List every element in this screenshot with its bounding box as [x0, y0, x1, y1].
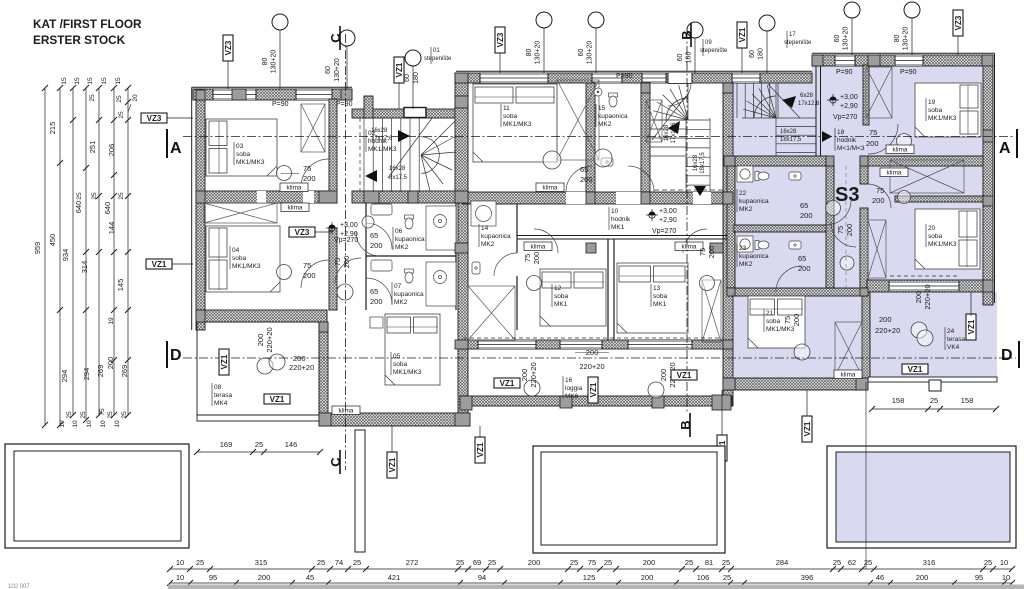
- svg-text:65: 65: [798, 254, 806, 263]
- window 19 a: [835, 55, 855, 66]
- svg-text:+3,00: +3,00: [840, 94, 858, 101]
- dashed line stairwell 01: [359, 118, 361, 192]
- window stair 09 a: [642, 73, 666, 83]
- wall pillar: [812, 55, 823, 66]
- section flag B top: [679, 23, 694, 47]
- svg-text:S3: S3: [835, 184, 859, 206]
- sink bath 15: [601, 158, 613, 166]
- svg-text:62: 62: [848, 558, 856, 567]
- door swing bath 15: [628, 166, 654, 192]
- bed room 20: [915, 209, 980, 269]
- bed room 21: [748, 296, 805, 348]
- window 19 b: [895, 55, 923, 66]
- svg-text:220+20: 220+20: [923, 284, 932, 309]
- svg-text:80: 80: [262, 58, 269, 66]
- top wall right block: [812, 55, 993, 66]
- svg-text:200: 200: [293, 354, 306, 363]
- svg-text:25: 25: [118, 192, 125, 200]
- terrace 08 boundary: [197, 322, 319, 415]
- svg-text:15: 15: [87, 77, 94, 85]
- klima room 12: [524, 242, 552, 251]
- bottom grey bar: [168, 585, 1024, 589]
- svg-text:200: 200: [792, 314, 801, 327]
- svg-text:VZ1: VZ1: [395, 62, 404, 77]
- svg-text:315: 315: [255, 558, 268, 567]
- flag VZ1 top-a: [394, 57, 404, 83]
- svg-text:180: 180: [413, 72, 420, 84]
- svg-text:294: 294: [60, 370, 69, 383]
- wall pillar: [982, 55, 993, 66]
- toilet bath 15: [609, 93, 618, 107]
- wardrobe room 19 entry: [866, 67, 892, 118]
- wall pillar: [455, 413, 470, 426]
- svg-text:D: D: [1001, 347, 1013, 364]
- wall corridor 18 / room 19: [863, 65, 869, 125]
- svg-text:220+20: 220+20: [579, 362, 604, 371]
- label terrace 24: [944, 327, 946, 350]
- svg-text:81: 81: [705, 558, 713, 567]
- ref point grid 80/130+20 a: [272, 14, 288, 30]
- label room 03: [233, 142, 235, 165]
- svg-text:+2,90: +2,90: [659, 217, 677, 224]
- ref point grid g: [904, 2, 920, 18]
- door circle terrace 08 a: [257, 358, 273, 374]
- outer skin line top-left wall: [192, 86, 352, 88]
- window stair 17: [732, 73, 760, 83]
- section flag C bottom: [328, 450, 343, 474]
- staircase 09 treads: [650, 84, 710, 192]
- duct stairwell 09: [646, 100, 662, 142]
- svg-text:125: 125: [583, 573, 596, 582]
- svg-text:640: 640: [103, 202, 112, 215]
- label bath 14: [478, 224, 480, 247]
- door swing room 04: [301, 260, 329, 288]
- svg-text:158: 158: [961, 396, 974, 405]
- svg-text:269: 269: [120, 365, 129, 378]
- wall pillar: [196, 90, 205, 100]
- svg-text:25: 25: [80, 411, 87, 419]
- svg-text:25: 25: [118, 111, 125, 119]
- bed room 04: [206, 226, 280, 292]
- svg-text:17x12,6: 17x12,6: [798, 101, 820, 107]
- wall room 20 / terrace 24: [867, 280, 983, 292]
- wall pillar: [724, 156, 735, 166]
- svg-text:200: 200: [303, 174, 316, 183]
- wardrobe room 21: [835, 322, 862, 376]
- svg-text:25: 25: [723, 573, 731, 582]
- wardrobe below bath 14: [468, 286, 515, 340]
- bed room 11: [473, 84, 557, 162]
- level mark hall 10: [646, 209, 658, 221]
- left outer wall: [196, 89, 205, 330]
- svg-text:180: 180: [686, 52, 693, 64]
- svg-text:959: 959: [33, 242, 42, 255]
- svg-text:25: 25: [722, 558, 730, 567]
- wall rooms 22/23: [734, 225, 826, 232]
- sink bath 06: [371, 204, 392, 215]
- svg-text:VZ3: VZ3: [147, 114, 162, 123]
- section letter A right: [999, 129, 1017, 158]
- wall pillar: [319, 322, 328, 332]
- flag VZ1 below c: [717, 435, 727, 461]
- toilet bath 22: [755, 172, 769, 181]
- svg-text:klima: klima: [893, 147, 908, 154]
- label bath 07: [391, 282, 393, 305]
- section letter A left: [167, 129, 182, 158]
- klima room 21: [834, 370, 862, 379]
- wall pillar: [710, 243, 723, 253]
- svg-text:VZ3: VZ3: [954, 15, 963, 30]
- flag VZ3 in plan: [289, 227, 315, 237]
- svg-text:25: 25: [76, 192, 83, 200]
- svg-text:74: 74: [335, 558, 343, 567]
- label bath 23: [736, 244, 738, 267]
- wall pillar: [641, 192, 650, 204]
- bottom dimension row 2: [170, 582, 1012, 584]
- wall pillar: [856, 378, 868, 390]
- loggia bottom parapet: [460, 396, 732, 406]
- S3 corridor left wall: [826, 166, 834, 292]
- room 21 floor: [725, 292, 868, 380]
- svg-text:25: 25: [685, 558, 693, 567]
- pier wall below building at C: [355, 430, 365, 552]
- wall stairwell 01 right / block divider: [455, 73, 468, 203]
- svg-text:16x28: 16x28: [664, 124, 670, 141]
- wall pillar: [586, 192, 595, 204]
- svg-text:18x17,5: 18x17,5: [780, 137, 802, 143]
- bed room 03: [206, 119, 277, 176]
- klima room 19: [886, 145, 914, 154]
- right outer wall: [983, 55, 993, 305]
- flag VZ1 right rot: [966, 314, 976, 340]
- svg-text:stepenište: stepenište: [700, 48, 728, 54]
- left dimension chains: [45, 88, 128, 425]
- svg-text:25: 25: [604, 558, 612, 567]
- window room 15: [592, 73, 622, 83]
- section letter D left: [167, 341, 182, 368]
- thin wall stairs 17 / corridor 18: [816, 65, 821, 156]
- svg-text:25: 25: [353, 558, 361, 567]
- door swing room 12: [534, 229, 558, 253]
- staircase 17 treads (S3): [737, 83, 816, 156]
- window room 12b: [560, 340, 602, 349]
- entry door threshold: [404, 108, 426, 118]
- ref point grid d: [687, 22, 703, 38]
- label room 13: [650, 284, 652, 307]
- door circle room 05 entry: [337, 284, 353, 300]
- outer skin line left wall: [191, 87, 193, 330]
- door swing room 21: [776, 266, 802, 292]
- svg-text:25: 25: [116, 95, 123, 103]
- svg-text:130+20: 130+20: [587, 41, 594, 65]
- svg-text:19: 19: [108, 317, 115, 325]
- flag VZ3 top-mid: [495, 27, 505, 53]
- svg-text:130+20: 130+20: [334, 58, 341, 82]
- svg-text:200: 200: [659, 369, 668, 382]
- wall pillar: [455, 191, 468, 203]
- svg-text:klima: klima: [339, 408, 354, 415]
- svg-text:94: 94: [478, 573, 486, 582]
- flag VZ1 top-b: [737, 22, 747, 48]
- wardrobe band rooms 19/20: [890, 160, 964, 193]
- door swing bath 06: [356, 232, 380, 256]
- klima room 05: [332, 406, 360, 415]
- door swing bath 22: [826, 200, 851, 225]
- loggia post mid-right: [652, 396, 664, 408]
- staircase 17 arrow: [782, 96, 796, 108]
- svg-text:09: 09: [705, 40, 712, 46]
- toilet bath 23: [755, 241, 769, 250]
- wall pillar: [723, 378, 735, 390]
- door swing bath 07: [366, 278, 392, 304]
- flag VZ1 terrace 08: [264, 394, 290, 404]
- svg-text:18x17,5: 18x17,5: [700, 152, 706, 174]
- partition walls baths 06/07: [366, 199, 614, 340]
- toilet bath 07: [405, 269, 414, 283]
- door swing room 05 entry: [335, 258, 361, 284]
- top wall centre block: [458, 73, 812, 83]
- section letter D right: [1001, 341, 1019, 368]
- dashed open edge stair 09 landing: [654, 189, 723, 191]
- door circle room 11: [543, 151, 561, 169]
- window room 11: [480, 73, 548, 83]
- svg-text:VZ3: VZ3: [224, 40, 233, 55]
- svg-text:200: 200: [872, 196, 885, 205]
- svg-text:25: 25: [930, 396, 938, 405]
- svg-text:25: 25: [91, 192, 98, 200]
- stairwell 09 / S3 wall: [723, 83, 733, 203]
- svg-text:16x28: 16x28: [780, 129, 797, 135]
- staircase 01 direction arrows: [398, 130, 410, 142]
- wall rooms 22-23 / room 21: [727, 288, 868, 296]
- svg-text:25: 25: [570, 558, 578, 567]
- svg-text:25: 25: [89, 94, 96, 102]
- S3 bath left wall: [727, 160, 735, 292]
- flag VZ1 loggia b: [671, 370, 697, 380]
- wall room 20 top: [895, 196, 983, 202]
- svg-text:Vp=270: Vp=270: [652, 228, 676, 235]
- S3 corridor right wall upper: [860, 166, 868, 184]
- window room 03 b: [296, 89, 332, 100]
- svg-text:200: 200: [370, 241, 383, 250]
- entry door top wall: [668, 73, 692, 83]
- svg-text:P=90: P=90: [272, 101, 289, 108]
- bottom right terrace floor: [836, 452, 1010, 542]
- svg-text:200: 200: [800, 211, 813, 220]
- bed room 12: [540, 269, 606, 326]
- svg-text:130+20: 130+20: [903, 27, 910, 51]
- svg-text:8x17,5: 8x17,5: [389, 175, 408, 181]
- svg-text:10: 10: [176, 573, 184, 582]
- bed room 05: [385, 314, 440, 385]
- flag VZ3 top-right: [953, 10, 963, 36]
- wall room 21 / terrace 24: [862, 292, 870, 380]
- terrace door room 20: [889, 281, 959, 291]
- svg-text:P=90: P=90: [836, 69, 853, 76]
- top wall left block: [193, 89, 352, 100]
- svg-text:75: 75: [869, 128, 877, 137]
- window wall rooms 12-13 / loggia: [460, 340, 732, 349]
- door circle loggia b: [648, 382, 664, 398]
- wall pillar: [455, 243, 468, 253]
- svg-text:200: 200: [580, 175, 593, 184]
- svg-text:klima: klima: [682, 244, 697, 251]
- extension line x866: [865, 382, 867, 569]
- svg-text:VZ1: VZ1: [967, 319, 976, 334]
- door swing room 03: [301, 159, 329, 187]
- svg-text:75: 75: [303, 261, 311, 270]
- svg-text:220+20: 220+20: [875, 326, 900, 335]
- svg-text:stepenište: stepenište: [784, 40, 812, 46]
- svg-text:16x28: 16x28: [693, 154, 699, 171]
- door swing bath 14: [494, 253, 517, 276]
- sink bath 23: [789, 241, 801, 249]
- svg-text:60: 60: [325, 66, 332, 74]
- toilet bath 06: [405, 215, 414, 229]
- klima room 03: [280, 183, 308, 192]
- window room 03 a: [213, 89, 256, 100]
- door swing bath 06: [366, 223, 392, 249]
- svg-text:klima: klima: [887, 170, 902, 177]
- svg-text:KAT /FIRST FLOOR: KAT /FIRST FLOOR: [33, 17, 142, 31]
- ref point grid b: [536, 12, 552, 28]
- wall pillar: [860, 156, 868, 166]
- shower bath 22: [737, 166, 753, 182]
- svg-text:VZ3: VZ3: [295, 228, 310, 237]
- wall room 05 / centre block left: [458, 203, 468, 426]
- window room 12: [478, 340, 536, 349]
- wardrobe room 13: [702, 280, 721, 342]
- svg-text:450: 450: [48, 234, 57, 247]
- apartment S3 highlighted floor area: [733, 65, 983, 156]
- flag VZ3 top-left: [223, 35, 233, 61]
- level mark hall left: [326, 222, 338, 234]
- wall pillar: [408, 191, 418, 203]
- svg-text:17x11,6: 17x11,6: [671, 122, 677, 144]
- svg-text:P=90: P=90: [336, 101, 353, 108]
- svg-text:VZ1: VZ1: [220, 354, 229, 369]
- svg-text:60: 60: [834, 35, 841, 43]
- svg-text:60: 60: [749, 50, 756, 58]
- label room 05: [390, 352, 392, 375]
- ref point grid c: [588, 12, 604, 28]
- svg-text:VZ1: VZ1: [270, 395, 285, 404]
- wall pillar: [983, 196, 993, 206]
- door circle terrace 08 b: [269, 354, 285, 370]
- door swing corridor S3 end: [831, 222, 856, 247]
- svg-text:60: 60: [677, 54, 684, 62]
- wall pillar: [232, 89, 246, 100]
- section line C vertical: [345, 34, 347, 470]
- svg-text:klima: klima: [841, 372, 856, 379]
- section line B vertical: [686, 30, 688, 414]
- wall pillar: [455, 73, 468, 83]
- door circle room 21: [794, 344, 810, 360]
- door circle terrace 24 a: [911, 322, 927, 338]
- svg-text:P=90: P=90: [616, 73, 633, 80]
- svg-text:10: 10: [1000, 558, 1008, 567]
- svg-text:60: 60: [578, 49, 585, 57]
- shower bath 06: [426, 206, 456, 250]
- wall stairwell 01 bottom: [352, 191, 463, 203]
- ref point grid e: [759, 15, 775, 31]
- svg-text:+2,90: +2,90: [840, 103, 858, 110]
- svg-text:95: 95: [209, 573, 217, 582]
- svg-text:75: 75: [783, 316, 792, 324]
- bottom dimension row 1: [170, 568, 1012, 570]
- svg-text:316: 316: [923, 558, 936, 567]
- label room 04: [229, 246, 231, 269]
- wall pillar: [196, 191, 205, 203]
- door circle room 04: [277, 265, 292, 280]
- window room 13: [628, 340, 692, 349]
- svg-text:klima: klima: [543, 185, 558, 192]
- svg-text:75: 75: [876, 186, 884, 195]
- wall pillar: [641, 83, 650, 93]
- svg-text:25: 25: [255, 440, 263, 449]
- svg-text:VZ1: VZ1: [500, 379, 515, 388]
- svg-text:180: 180: [758, 48, 765, 60]
- door circle bath 06: [362, 216, 374, 228]
- svg-text:75: 75: [303, 164, 311, 173]
- door circle room 03: [277, 166, 292, 181]
- label bath 15: [595, 104, 597, 127]
- svg-text:25: 25: [196, 558, 204, 567]
- svg-text:200: 200: [879, 315, 892, 324]
- svg-text:200: 200: [106, 357, 115, 370]
- S3 corridor right wall lower: [860, 208, 868, 292]
- label room 21: [763, 309, 765, 332]
- label bath 06: [392, 227, 394, 250]
- svg-text:130+20: 130+20: [843, 27, 850, 51]
- terrace 24 bottom edge: [868, 377, 997, 382]
- svg-text:251: 251: [88, 141, 97, 154]
- svg-text:200: 200: [370, 297, 383, 306]
- wall pillar: [723, 340, 733, 349]
- svg-text:VZ1: VZ1: [152, 260, 167, 269]
- section flag B bottom: [678, 413, 693, 437]
- svg-text:D: D: [170, 347, 182, 364]
- label room 11: [500, 104, 502, 127]
- svg-text:17: 17: [789, 32, 796, 38]
- flag VZ1 below d: [802, 416, 812, 442]
- stair lobby pillar: [364, 96, 373, 118]
- terrace outline bottom-left: [5, 444, 189, 548]
- svg-text:klima: klima: [531, 244, 546, 251]
- svg-text:65: 65: [800, 201, 808, 210]
- door swing room 11: [566, 166, 592, 192]
- door swing room 19: [868, 124, 898, 154]
- svg-text:VZ1: VZ1: [476, 442, 485, 457]
- closet room 20: [868, 220, 886, 278]
- svg-text:46: 46: [876, 573, 884, 582]
- wall rooms 03/04: [197, 191, 329, 203]
- svg-text:VZ1: VZ1: [908, 365, 923, 374]
- flag VZ1 below a: [387, 452, 397, 478]
- svg-text:200: 200: [532, 252, 541, 265]
- svg-text:75: 75: [99, 408, 106, 416]
- svg-text:294: 294: [82, 368, 91, 381]
- section flag C top: [328, 26, 343, 50]
- shower bath 14: [471, 201, 496, 226]
- flag VZ1 loggia a: [494, 378, 520, 388]
- svg-text:VZ1: VZ1: [803, 421, 812, 436]
- label room 12: [551, 284, 553, 307]
- flag VZ1 left: [146, 259, 172, 269]
- wall pillar: [455, 96, 468, 108]
- outer skin line centre top wall: [456, 70, 812, 72]
- svg-text:VZ1: VZ1: [677, 371, 692, 380]
